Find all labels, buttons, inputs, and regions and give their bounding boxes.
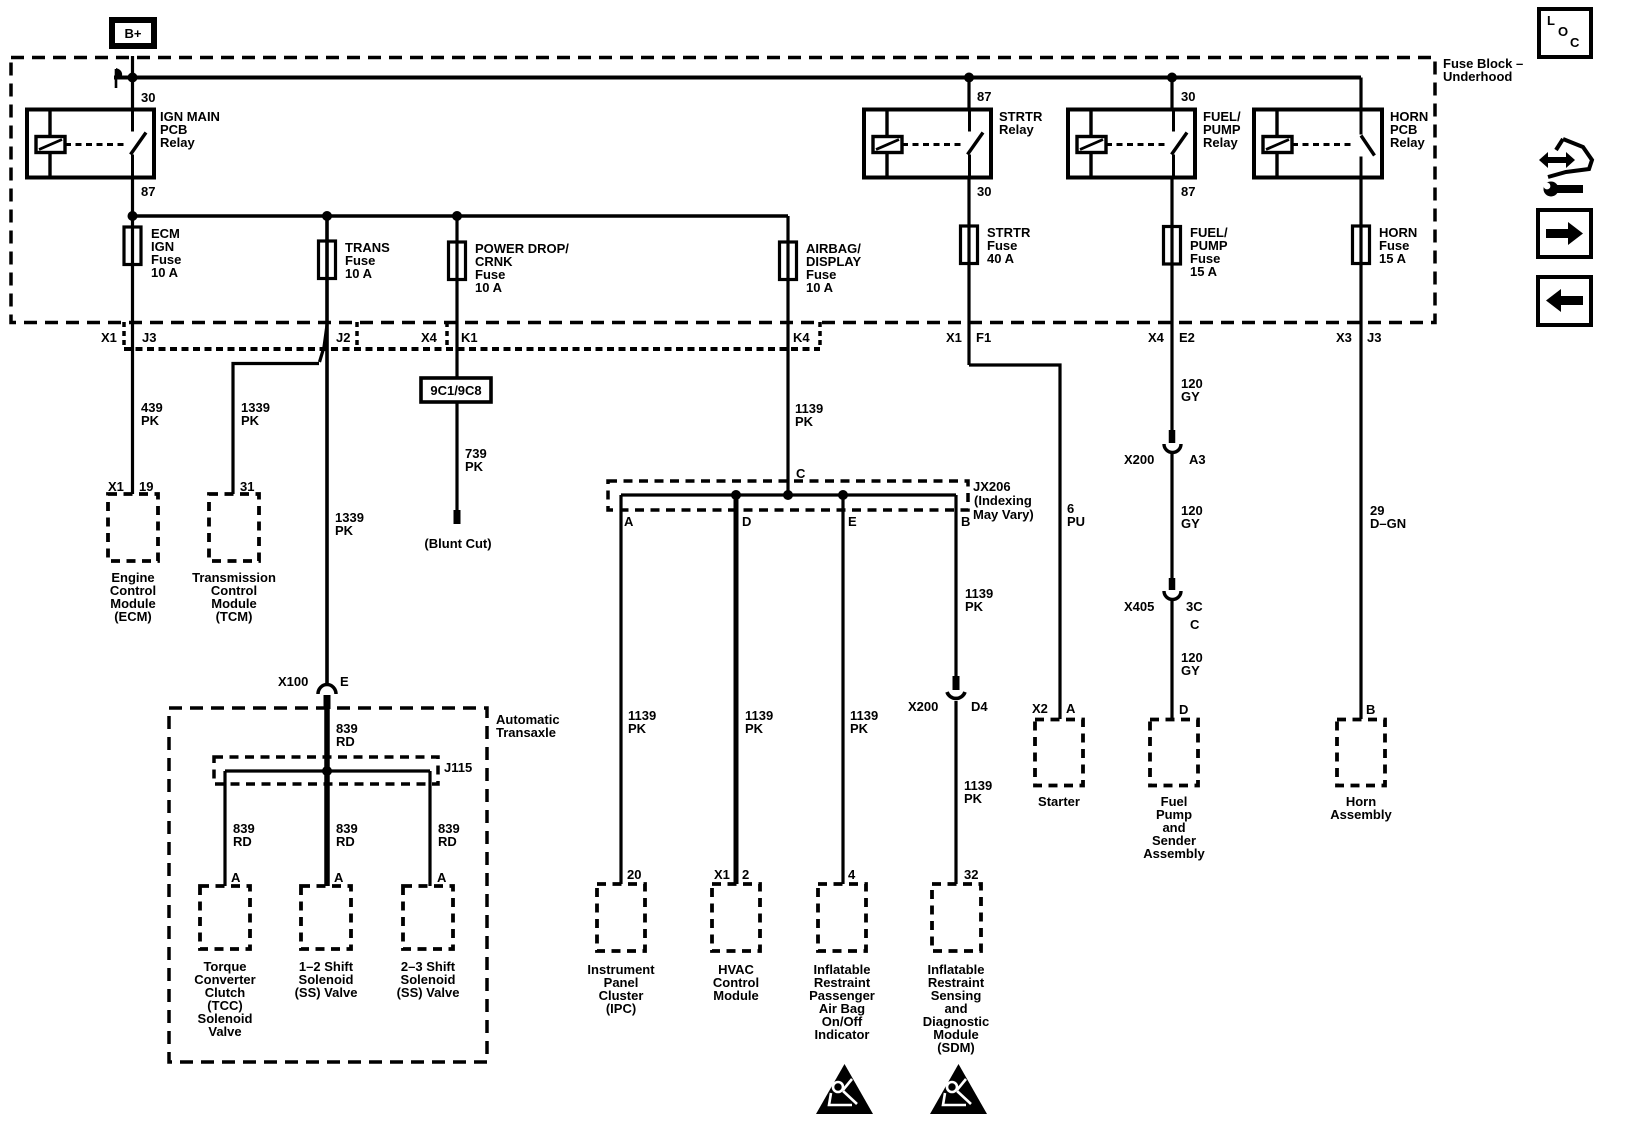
svg-text:J115: J115 <box>444 760 472 775</box>
svg-text:Indicator: Indicator <box>815 1027 870 1042</box>
svg-text:(TCM): (TCM) <box>216 609 253 624</box>
svg-text:PK: PK <box>965 599 984 614</box>
svg-text:K1: K1 <box>461 330 478 345</box>
svg-text:30: 30 <box>141 90 155 105</box>
svg-text:J3: J3 <box>142 330 156 345</box>
svg-text:J3: J3 <box>1367 330 1381 345</box>
svg-text:X100: X100 <box>278 674 308 689</box>
svg-text:X4: X4 <box>1148 330 1165 345</box>
svg-text:30: 30 <box>1181 89 1195 104</box>
svg-text:(Blunt Cut): (Blunt Cut) <box>424 536 491 551</box>
svg-text:A: A <box>1066 701 1076 716</box>
svg-text:X405: X405 <box>1124 599 1154 614</box>
svg-text:May Vary): May Vary) <box>973 507 1034 522</box>
svg-text:A: A <box>437 870 447 885</box>
svg-text:A: A <box>334 870 344 885</box>
svg-text:4: 4 <box>848 867 856 882</box>
svg-text:10 A: 10 A <box>345 266 373 281</box>
svg-text:RD: RD <box>336 834 355 849</box>
svg-text:(Indexing: (Indexing <box>974 493 1032 508</box>
svg-text:D: D <box>742 514 751 529</box>
svg-text:15 A: 15 A <box>1190 264 1218 279</box>
svg-text:31: 31 <box>240 479 254 494</box>
svg-text:(IPC): (IPC) <box>606 1001 636 1016</box>
svg-text:Module: Module <box>713 988 759 1003</box>
svg-text:20: 20 <box>627 867 641 882</box>
svg-text:PK: PK <box>335 523 354 538</box>
svg-text:PK: PK <box>850 721 869 736</box>
svg-text:PK: PK <box>745 721 764 736</box>
svg-text:(SS) Valve: (SS) Valve <box>397 985 460 1000</box>
svg-text:PK: PK <box>241 413 260 428</box>
svg-text:B+: B+ <box>125 26 142 41</box>
svg-text:RD: RD <box>233 834 252 849</box>
svg-text:Underhood: Underhood <box>1443 69 1512 84</box>
svg-text:Relay: Relay <box>1203 135 1238 150</box>
svg-text:PK: PK <box>465 459 484 474</box>
svg-text:A3: A3 <box>1189 452 1206 467</box>
svg-text:Starter: Starter <box>1038 794 1080 809</box>
svg-text:PK: PK <box>141 413 160 428</box>
svg-text:L: L <box>1547 13 1555 28</box>
svg-text:Assembly: Assembly <box>1143 846 1205 861</box>
svg-text:GY: GY <box>1181 389 1200 404</box>
svg-text:3C: 3C <box>1186 599 1203 614</box>
svg-text:RD: RD <box>336 734 355 749</box>
svg-text:X1: X1 <box>946 330 962 345</box>
svg-text:10 A: 10 A <box>151 265 179 280</box>
svg-text:15 A: 15 A <box>1379 251 1407 266</box>
svg-text:GY: GY <box>1181 516 1200 531</box>
svg-text:RD: RD <box>438 834 457 849</box>
svg-text:PK: PK <box>628 721 647 736</box>
svg-text:10 A: 10 A <box>806 280 834 295</box>
svg-text:2: 2 <box>742 867 749 882</box>
svg-text:X200: X200 <box>908 699 938 714</box>
svg-text:30: 30 <box>977 184 991 199</box>
svg-text:X200: X200 <box>1124 452 1154 467</box>
svg-text:Relay: Relay <box>160 135 195 150</box>
svg-text:X1: X1 <box>714 867 730 882</box>
svg-text:X2: X2 <box>1032 701 1048 716</box>
svg-text:O: O <box>1558 24 1568 39</box>
svg-text:(SDM): (SDM) <box>937 1040 975 1055</box>
svg-text:PK: PK <box>964 791 983 806</box>
svg-text:PK: PK <box>795 414 814 429</box>
svg-text:F1: F1 <box>976 330 991 345</box>
svg-text:JX206: JX206 <box>973 479 1011 494</box>
svg-text:Transaxle: Transaxle <box>496 725 556 740</box>
svg-text:Assembly: Assembly <box>1330 807 1392 822</box>
svg-text:10 A: 10 A <box>475 280 503 295</box>
svg-text:A: A <box>231 870 241 885</box>
svg-text:GY: GY <box>1181 663 1200 678</box>
svg-text:E: E <box>340 674 349 689</box>
svg-text:K4: K4 <box>793 330 810 345</box>
svg-text:19: 19 <box>139 479 153 494</box>
svg-text:A: A <box>624 514 634 529</box>
svg-text:B: B <box>961 514 970 529</box>
svg-text:E2: E2 <box>1179 330 1195 345</box>
svg-text:C: C <box>1570 35 1580 50</box>
svg-text:D–GN: D–GN <box>1370 516 1406 531</box>
svg-text:X1: X1 <box>108 479 124 494</box>
svg-text:Relay: Relay <box>999 122 1034 137</box>
svg-text:9C1/9C8: 9C1/9C8 <box>430 383 481 398</box>
svg-text:(SS) Valve: (SS) Valve <box>295 985 358 1000</box>
svg-text:87: 87 <box>977 89 991 104</box>
svg-text:D: D <box>1179 702 1188 717</box>
svg-text:Relay: Relay <box>1390 135 1425 150</box>
svg-text:40 A: 40 A <box>987 251 1015 266</box>
svg-text:D4: D4 <box>971 699 988 714</box>
svg-text:PU: PU <box>1067 514 1085 529</box>
svg-text:C: C <box>796 466 806 481</box>
svg-text:X3: X3 <box>1336 330 1352 345</box>
svg-text:E: E <box>848 514 857 529</box>
svg-text:J2: J2 <box>336 330 350 345</box>
svg-text:B: B <box>1366 702 1375 717</box>
svg-text:C: C <box>1190 617 1200 632</box>
svg-text:(ECM): (ECM) <box>114 609 152 624</box>
svg-text:32: 32 <box>964 867 978 882</box>
svg-text:Valve: Valve <box>208 1024 241 1039</box>
svg-text:X1: X1 <box>101 330 117 345</box>
svg-text:87: 87 <box>1181 184 1195 199</box>
svg-text:87: 87 <box>141 184 155 199</box>
svg-text:X4: X4 <box>421 330 438 345</box>
